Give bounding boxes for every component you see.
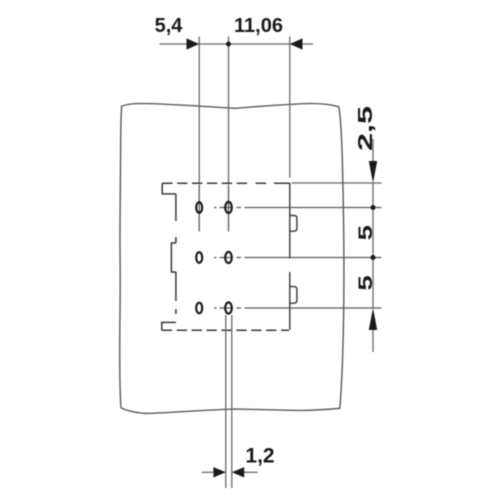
slot edge line right x=231.8 [231, 315, 233, 488]
extension line x=228.5 (top dim to housing) [228, 37, 230, 184]
right dim top arrow (points down) tip 373,183 [369, 161, 377, 183]
housing right bump 2 [290, 287, 297, 304]
centerline row 2 [214, 257, 382, 259]
right dim top tail [372, 139, 374, 162]
centerline row 3 [214, 307, 382, 309]
hole A3 left col row3 [196, 303, 202, 314]
panel body wavy outline [120, 103, 344, 413]
svg-text:2,5: 2,5 [354, 106, 376, 151]
centerline row 1 [214, 207, 382, 209]
right dim bottom tail [372, 330, 374, 352]
bottom dimension line y=471.5 [202, 471, 214, 473]
hole B3 right col row3 [225, 302, 232, 313]
arrow right (points left) tip at 289.8,44 [290, 38, 303, 49]
svg-text:1,2: 1,2 [245, 444, 274, 467]
dot at row1 [371, 205, 376, 210]
right dimension line x=373 [372, 183, 374, 308]
extension line x=199 (top dim to housing) [198, 37, 200, 184]
housing right edge solid dashes [289, 183, 291, 329]
slot edge line left x=224.8 [225, 315, 227, 488]
centerline vertical col1 dashes [198, 185, 200, 232]
hole A2 left col row2 [196, 252, 202, 263]
extension line y=183 to right dim [292, 182, 382, 184]
svg-text:5: 5 [356, 225, 377, 240]
extension line x=290 (top dim to housing) [289, 37, 291, 178]
dimension line top y=44 [160, 43, 314, 45]
bottom arrow left (points right) tip 224.8 [213, 467, 225, 477]
hole B2 right col row2 [225, 252, 232, 263]
dot at row2 [371, 255, 376, 260]
hole B1 right col row1 [225, 202, 232, 213]
svg-text:11,06: 11,06 [234, 15, 283, 37]
housing right bump 1 [290, 216, 297, 232]
right dim bottom arrow (points up) tip 373,308 [369, 308, 377, 330]
arrow left (points right) tip at 199.2,44 [187, 38, 200, 49]
bottom arrow right (points left) tip 231.8 [232, 467, 244, 477]
housing dashed bottom line y=330.2 [162, 329, 289, 331]
centerline vertical col2 dashes [228, 185, 230, 232]
housing dashed top line y=183.3 [162, 182, 290, 184]
svg-text:5,4: 5,4 [155, 15, 184, 37]
dot separator at 228.5,44 [226, 42, 231, 47]
housing left latch notch [171, 243, 176, 272]
svg-text:5: 5 [356, 275, 377, 290]
housing top-left corner step [162, 183, 176, 194]
hole A1 left col row1 [196, 202, 202, 213]
housing left edge dash lower [175, 272, 177, 314]
housing left edge dash upper [175, 194, 177, 243]
housing bottom-left corner step [162, 322, 176, 330]
